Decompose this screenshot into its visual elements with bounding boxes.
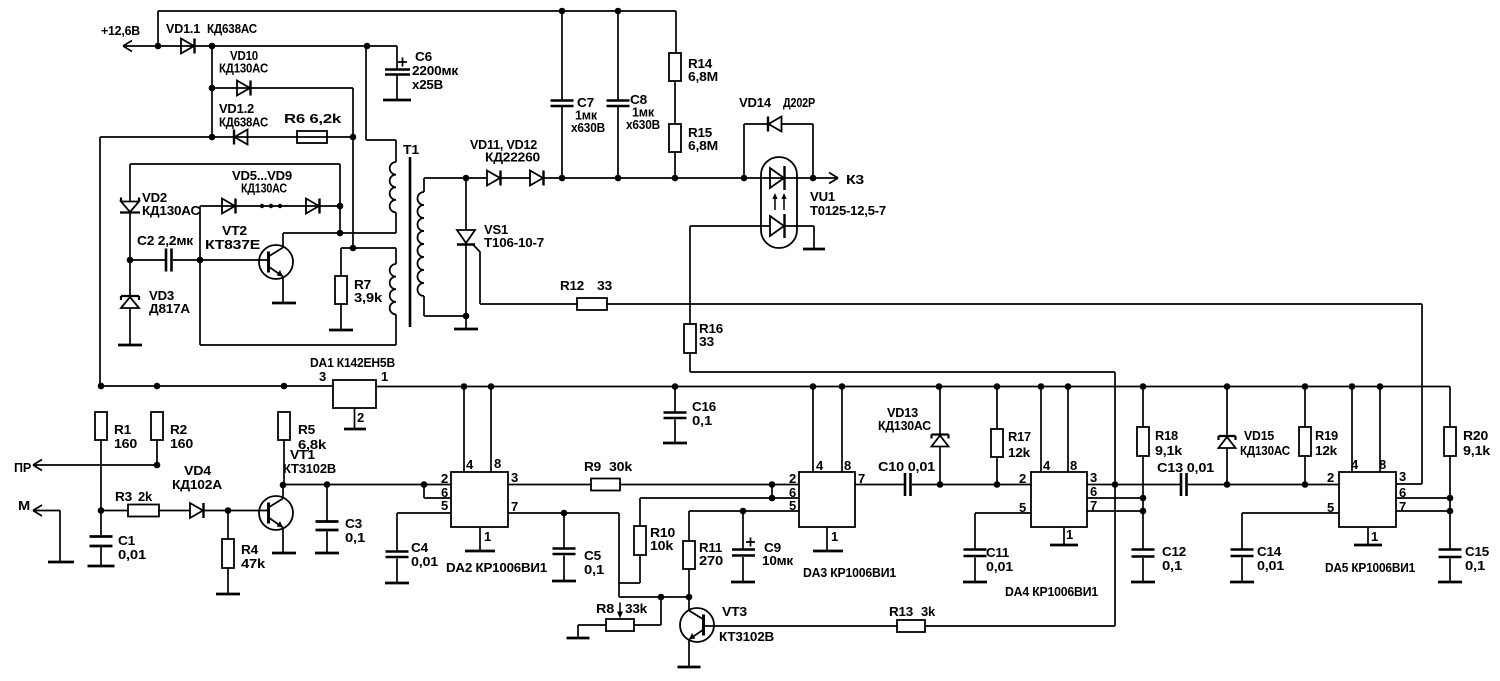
svg-text:VD4: VD4	[184, 463, 212, 478]
resistor R19	[1304, 387, 1306, 428]
zener VD13	[939, 387, 941, 435]
node at 1143,498	[1140, 495, 1147, 502]
node at 327,485	[324, 481, 331, 488]
node at 1068,386	[1065, 383, 1072, 390]
svg-text:R17: R17	[1008, 429, 1031, 444]
svg-text:Д202Р: Д202Р	[783, 95, 815, 110]
resistor R14	[675, 11, 677, 53]
diode VD14	[744, 124, 768, 178]
resistor R5	[278, 412, 290, 440]
svg-text:0,1: 0,1	[1162, 558, 1182, 573]
wire secondary top row y178	[424, 177, 838, 179]
svg-text:33: 33	[597, 278, 612, 293]
ground VD3	[118, 344, 142, 347]
svg-text:7: 7	[511, 499, 518, 514]
op-amp timer DA5	[1339, 472, 1396, 527]
svg-text:0,01: 0,01	[411, 554, 438, 569]
ground R8	[567, 637, 590, 640]
wire main bus left	[100, 385, 333, 387]
svg-text:30k: 30k	[609, 459, 633, 474]
op-amp timer DA3	[799, 472, 855, 527]
svg-text:DA1 К142ЕН5В: DA1 К142ЕН5В	[310, 355, 395, 370]
svg-text:3k: 3k	[921, 604, 936, 619]
ground VT1	[272, 552, 296, 555]
svg-text:0,1: 0,1	[692, 413, 712, 428]
wire DA1 pin2	[354, 408, 356, 428]
svg-text:1: 1	[484, 529, 491, 544]
svg-text:R9: R9	[584, 459, 601, 474]
svg-text:VD14: VD14	[739, 95, 772, 110]
svg-text:VT1: VT1	[290, 447, 315, 462]
svg-text:R4: R4	[241, 542, 259, 557]
node at 689,597	[686, 594, 693, 601]
ground VT2	[272, 302, 296, 305]
wire VD10 down to R6 node	[352, 88, 354, 137]
svg-text:3: 3	[1399, 469, 1406, 484]
svg-text:270: 270	[699, 553, 723, 568]
node at 772,484	[769, 481, 776, 488]
svg-text:3: 3	[511, 470, 518, 485]
wire vertical 200 base winding	[199, 206, 201, 345]
node at 1380,386	[1377, 383, 1384, 390]
resistor R3	[101, 510, 128, 512]
svg-text:R19: R19	[1315, 428, 1338, 443]
svg-text:VD15: VD15	[1244, 428, 1274, 443]
svg-text:6: 6	[1090, 484, 1097, 499]
ground C14	[1230, 581, 1254, 584]
svg-text:12k: 12k	[1008, 445, 1031, 460]
svg-text:R12: R12	[560, 278, 584, 293]
wire DA5 pin8	[1379, 387, 1381, 473]
node at 283,485	[280, 482, 287, 489]
arrow +12,6В input	[123, 41, 132, 52]
svg-text:VT3: VT3	[722, 604, 747, 619]
node at 1041,386	[1038, 383, 1045, 390]
capacitor C7	[561, 11, 563, 100]
svg-text:8: 8	[1070, 458, 1077, 473]
svg-text:2: 2	[1327, 470, 1334, 485]
wire DA4 pin7	[1087, 510, 1143, 512]
arrow ПР output	[33, 464, 157, 466]
svg-text:С4: С4	[411, 540, 429, 555]
svg-text:9,1k: 9,1k	[1463, 443, 1491, 458]
svg-text:160: 160	[114, 436, 137, 451]
zener VD3	[129, 260, 131, 296]
svg-text:5: 5	[441, 498, 448, 513]
svg-text:К3: К3	[846, 172, 864, 187]
ground C11	[963, 581, 987, 584]
node at 997,484	[994, 481, 1001, 488]
op-amp timer DA2	[451, 472, 508, 527]
svg-text:+12,6В: +12,6В	[101, 23, 140, 38]
capacitor C3	[326, 485, 328, 522]
svg-text:3: 3	[1090, 470, 1097, 485]
capacitor C9 (electrolytic)	[742, 511, 744, 549]
svg-text:33k: 33k	[625, 601, 648, 616]
svg-text:160: 160	[170, 436, 193, 451]
wire DA4 pin1	[1063, 527, 1065, 544]
svg-text:R18: R18	[1155, 428, 1178, 443]
svg-text:КД638АС: КД638АС	[219, 115, 269, 130]
wire DA3 pins 2-6 tie	[771, 485, 773, 499]
svg-text:Т0125-12,5-7: Т0125-12,5-7	[810, 203, 886, 218]
resistor R12	[577, 298, 607, 310]
node at 772,498	[769, 495, 776, 502]
svg-text:С5: С5	[584, 548, 601, 563]
svg-text:VD1.1: VD1.1	[166, 21, 200, 36]
node at 353,137	[350, 134, 357, 141]
wire DA4 pin8	[1067, 387, 1069, 473]
svg-text:С12: С12	[1162, 544, 1186, 559]
svg-text:0,1: 0,1	[1465, 558, 1485, 573]
svg-text:КД130АС: КД130АС	[1240, 443, 1291, 458]
wire DA3 pin4	[812, 387, 814, 473]
svg-text:R3: R3	[115, 489, 132, 504]
svg-text:х630В: х630В	[571, 120, 605, 135]
resistor R10	[634, 526, 646, 555]
capacitor C16	[674, 387, 676, 413]
svg-text:4: 4	[466, 457, 474, 472]
node at 661,597	[658, 594, 665, 601]
node at 940,484	[937, 481, 944, 488]
diode VD12	[530, 171, 543, 186]
wire DA3 pin5	[689, 510, 799, 512]
voltage regulator DA1	[333, 380, 376, 408]
svg-text:КД22260: КД22260	[485, 150, 540, 165]
wire R7 row to winding	[341, 247, 396, 249]
svg-text:2: 2	[441, 471, 448, 486]
svg-text:0,01: 0,01	[118, 547, 146, 562]
ground VU1	[803, 248, 825, 251]
resistor R18	[1142, 387, 1144, 428]
ground C9	[731, 581, 755, 584]
wire DA4 pin5	[975, 513, 1031, 549]
svg-text:Д817А: Д817А	[149, 301, 191, 316]
ground DA4 pin1	[1050, 544, 1078, 547]
ground VS1	[465, 316, 467, 328]
wire VT2 collector	[283, 233, 396, 248]
svg-text:6,8М: 6,8М	[688, 69, 718, 84]
svg-text:С14: С14	[1257, 544, 1282, 559]
svg-text:КД130АС: КД130АС	[241, 181, 288, 196]
svg-text:1: 1	[381, 369, 388, 384]
wire DA3 pin1	[826, 527, 828, 550]
wire DA2 pin2/6 tie	[424, 485, 451, 499]
node at 353,248	[350, 245, 357, 252]
wire DA5 pin5	[1242, 513, 1339, 549]
svg-text:КТ3102В: КТ3102В	[283, 461, 336, 476]
svg-text:С2 2,2мк: С2 2,2мк	[137, 233, 194, 248]
node at 1143,511	[1140, 508, 1147, 515]
svg-text:0,01: 0,01	[986, 559, 1013, 574]
node at 1450,498	[1447, 495, 1454, 502]
resistor R15	[674, 81, 676, 124]
capacitor C10	[905, 473, 911, 496]
svg-text:3,9k: 3,9k	[354, 290, 383, 305]
svg-text:2: 2	[357, 410, 364, 425]
ground DA3 pin1	[813, 550, 843, 553]
svg-text:х630В: х630В	[626, 117, 660, 132]
node at 1352,386	[1349, 383, 1356, 390]
capacitor C12	[1132, 550, 1155, 557]
node at 130,260	[127, 257, 134, 264]
node at 212,88	[209, 85, 216, 92]
svg-text:КД130АС: КД130АС	[219, 61, 269, 76]
resistor R1	[95, 412, 107, 440]
svg-text:R2: R2	[170, 422, 187, 437]
svg-text:33: 33	[699, 334, 714, 349]
resistor R17	[996, 387, 998, 430]
node at 466,316	[463, 313, 470, 320]
node at 367,46	[364, 43, 371, 50]
ground DA2 pin1	[465, 550, 495, 553]
resistor R16	[684, 324, 696, 353]
svg-text:КТ837Е: КТ837Е	[205, 237, 261, 252]
wire VT2 emitter	[282, 277, 284, 303]
node at 939,386	[936, 383, 943, 390]
node at 340,206	[337, 203, 344, 210]
node at 1227,386	[1224, 383, 1231, 390]
svg-text:КД130АС: КД130АС	[878, 418, 932, 433]
wire DA2 pin3 output	[508, 484, 591, 486]
ground C6	[383, 99, 411, 102]
wire R9 to DA3	[620, 484, 799, 486]
svg-text:0,1: 0,1	[584, 562, 604, 577]
wire DA2 pin1	[479, 527, 481, 550]
svg-text:R1: R1	[114, 422, 131, 437]
wire DA4 pin3 output	[1087, 484, 1181, 486]
resistor R11	[688, 511, 690, 541]
ground DA5 pin1	[1354, 544, 1382, 547]
wire riser to DA5 pin3	[1396, 304, 1422, 484]
transformer T1 core	[409, 157, 412, 327]
node at 101,386	[98, 383, 105, 390]
svg-text:R6 6,2k: R6 6,2k	[284, 111, 342, 126]
svg-text:С13 0,01: С13 0,01	[1157, 460, 1214, 475]
node at 464,386	[461, 383, 468, 390]
wire DA4 pin4	[1040, 387, 1042, 473]
wire VT3 base row	[704, 625, 898, 627]
resistor R13	[897, 620, 925, 632]
svg-text:2k: 2k	[138, 489, 153, 504]
node at 813,178	[810, 175, 817, 182]
node at 340,233	[337, 230, 344, 237]
svg-text:Т1: Т1	[403, 142, 419, 157]
wire riser to top bus	[157, 11, 159, 46]
wire DA4 pin6	[1087, 497, 1143, 499]
capacitor C5	[563, 513, 565, 548]
svg-text:DA2 КР1006ВИ1: DA2 КР1006ВИ1	[446, 560, 547, 575]
svg-text:R8: R8	[596, 601, 614, 616]
node at 466,178	[463, 175, 470, 182]
svg-text:4: 4	[1043, 458, 1051, 473]
variable resistor R8	[619, 603, 621, 616]
node at 491,386	[488, 383, 495, 390]
arrow М output	[33, 505, 42, 516]
ground R4	[216, 593, 240, 596]
svg-text:2: 2	[1019, 471, 1026, 486]
zener VD15	[1226, 387, 1228, 437]
wire y137 VD1.2 row	[100, 136, 353, 138]
node at 1115,484	[1112, 481, 1119, 488]
node at 157,465	[154, 462, 161, 469]
svg-text:С15: С15	[1465, 544, 1489, 559]
wire vertical 340	[339, 164, 341, 233]
svg-text:DA3 КР1006ВИ1: DA3 КР1006ВИ1	[803, 565, 896, 580]
node at 813,386	[810, 383, 817, 390]
svg-text:10мк: 10мк	[762, 553, 794, 568]
svg-text:С1: С1	[118, 533, 135, 548]
ground C12	[1131, 581, 1155, 584]
ground R7	[329, 329, 353, 332]
wire 353 down to R7 top	[352, 137, 354, 248]
wire vertical 212	[211, 46, 213, 137]
svg-text:3: 3	[319, 369, 326, 384]
thyristor VS1	[465, 178, 467, 230]
diode VD4	[159, 510, 190, 512]
node at 842,386	[839, 383, 846, 390]
node at 675,178	[672, 175, 679, 182]
resistor R20	[1449, 387, 1451, 428]
capacitor C13	[1181, 473, 1187, 496]
svg-text:DA4 КР1006ВИ1: DA4 КР1006ВИ1	[1005, 584, 1098, 599]
svg-text:1: 1	[1066, 527, 1073, 542]
svg-text:R5: R5	[298, 422, 315, 437]
capacitor C2	[130, 259, 166, 261]
wire main bus right	[376, 386, 1450, 388]
node at 284,386	[281, 383, 288, 390]
capacitor C15	[1439, 550, 1462, 558]
svg-text:R20: R20	[1463, 428, 1488, 443]
node at 212,137	[209, 134, 216, 141]
resistor R9	[591, 479, 620, 491]
wire DA2 pin7	[508, 513, 640, 597]
resistor R4	[227, 511, 229, 540]
node at 743,511	[740, 508, 747, 515]
node at 564,513	[561, 510, 568, 517]
wire oscillator top y164	[130, 163, 340, 165]
capacitor C14	[1231, 550, 1254, 557]
wire DA3 pin6 stub	[772, 497, 799, 499]
node at 675,386	[672, 383, 679, 390]
ground C1	[88, 565, 115, 568]
svg-text:КД102А: КД102А	[172, 477, 223, 492]
capacitor C1	[90, 537, 113, 547]
ground C5	[552, 580, 576, 583]
svg-text:4: 4	[816, 458, 824, 473]
node at 1305,386	[1302, 383, 1309, 390]
transistor VT3 (mirrored)	[680, 608, 714, 642]
svg-text:1: 1	[1371, 529, 1378, 544]
ground VT3	[678, 666, 701, 669]
svg-text:VU1: VU1	[810, 189, 835, 204]
wire VU1 lower lead	[690, 226, 814, 248]
node at 424,485	[421, 481, 428, 488]
node at 744,178	[741, 175, 748, 182]
node at 101,510	[98, 507, 105, 514]
svg-text:2: 2	[789, 471, 796, 486]
svg-text:М: М	[18, 498, 30, 513]
wire DA5 pin6	[1396, 497, 1450, 499]
ground C4	[385, 582, 409, 585]
node at 1227,484	[1224, 481, 1231, 488]
node at 157,386	[154, 383, 161, 390]
diode VD1.2	[235, 130, 248, 145]
svg-text:8: 8	[494, 456, 501, 471]
transistor VT2	[259, 245, 293, 279]
capacitor C4	[386, 552, 409, 558]
op-amp timer DA4	[1031, 472, 1087, 527]
node at 158,46	[155, 43, 162, 50]
svg-text:47k: 47k	[241, 556, 266, 571]
svg-text:DA5 КР1006ВИ1: DA5 КР1006ВИ1	[1325, 560, 1415, 575]
svg-text:С10 0,01: С10 0,01	[878, 459, 935, 474]
zener VD2	[129, 164, 131, 201]
wire +12,6V rail	[123, 45, 397, 47]
transformer T1 primary winding lower (feedback)	[395, 248, 397, 264]
wire VT1 collector row to DA2	[283, 484, 451, 486]
svg-text:9,1k: 9,1k	[1155, 443, 1183, 458]
svg-text:С16: С16	[692, 399, 716, 414]
diode VD11	[487, 171, 500, 186]
svg-text:Т106-10-7: Т106-10-7	[484, 235, 544, 250]
node at 997,386	[994, 383, 1001, 390]
capacitor C11	[964, 550, 987, 557]
wire DA2 pin8	[490, 387, 492, 473]
svg-text:VT2: VT2	[222, 223, 247, 238]
wire DA3 pin8	[841, 387, 843, 473]
wire DA5 pin7	[1396, 510, 1450, 512]
node at 1305,484	[1302, 481, 1309, 488]
svg-text:С11: С11	[986, 545, 1009, 560]
svg-text:КД638АС: КД638АС	[207, 21, 258, 36]
ground C16	[663, 442, 687, 445]
svg-text:10k: 10k	[650, 538, 674, 553]
diode VD10	[212, 87, 353, 89]
node at 200,260	[197, 257, 204, 264]
resistor R2	[151, 412, 163, 440]
svg-text:1: 1	[831, 529, 838, 544]
transistor VT1	[259, 496, 293, 530]
node at 212,46	[209, 43, 216, 50]
svg-text:0,1: 0,1	[345, 530, 365, 545]
transformer T1 secondary winding	[423, 178, 425, 192]
svg-text:6,8М: 6,8М	[688, 138, 718, 153]
ground DA1	[344, 428, 366, 431]
node at 1450,511	[1447, 508, 1454, 515]
wire top bus	[158, 10, 676, 12]
wire left rail	[99, 137, 101, 386]
resistor R6	[297, 131, 327, 143]
svg-text:2200мк: 2200мк	[412, 63, 459, 78]
svg-text:КД130АС: КД130АС	[142, 203, 201, 218]
wire DA2 pin5	[397, 513, 451, 551]
capacitor C8	[617, 11, 619, 100]
diode VD1.1	[181, 39, 194, 54]
svg-text:8: 8	[844, 458, 851, 473]
capacitor C6	[396, 46, 398, 69]
node at 1143,386	[1140, 383, 1147, 390]
ground C15	[1438, 581, 1462, 584]
diodes VD5...VD9 row	[200, 205, 340, 207]
wire DA5 pin4	[1351, 387, 1353, 473]
wire DA2 pin4	[463, 387, 465, 473]
opto-thyristor VU1	[761, 157, 797, 248]
wire R16 to DA4 pin3 riser	[690, 372, 1115, 626]
wire DA3 pin7 output	[855, 484, 905, 486]
node at 228,510	[225, 507, 232, 514]
resistor R7	[340, 248, 342, 276]
